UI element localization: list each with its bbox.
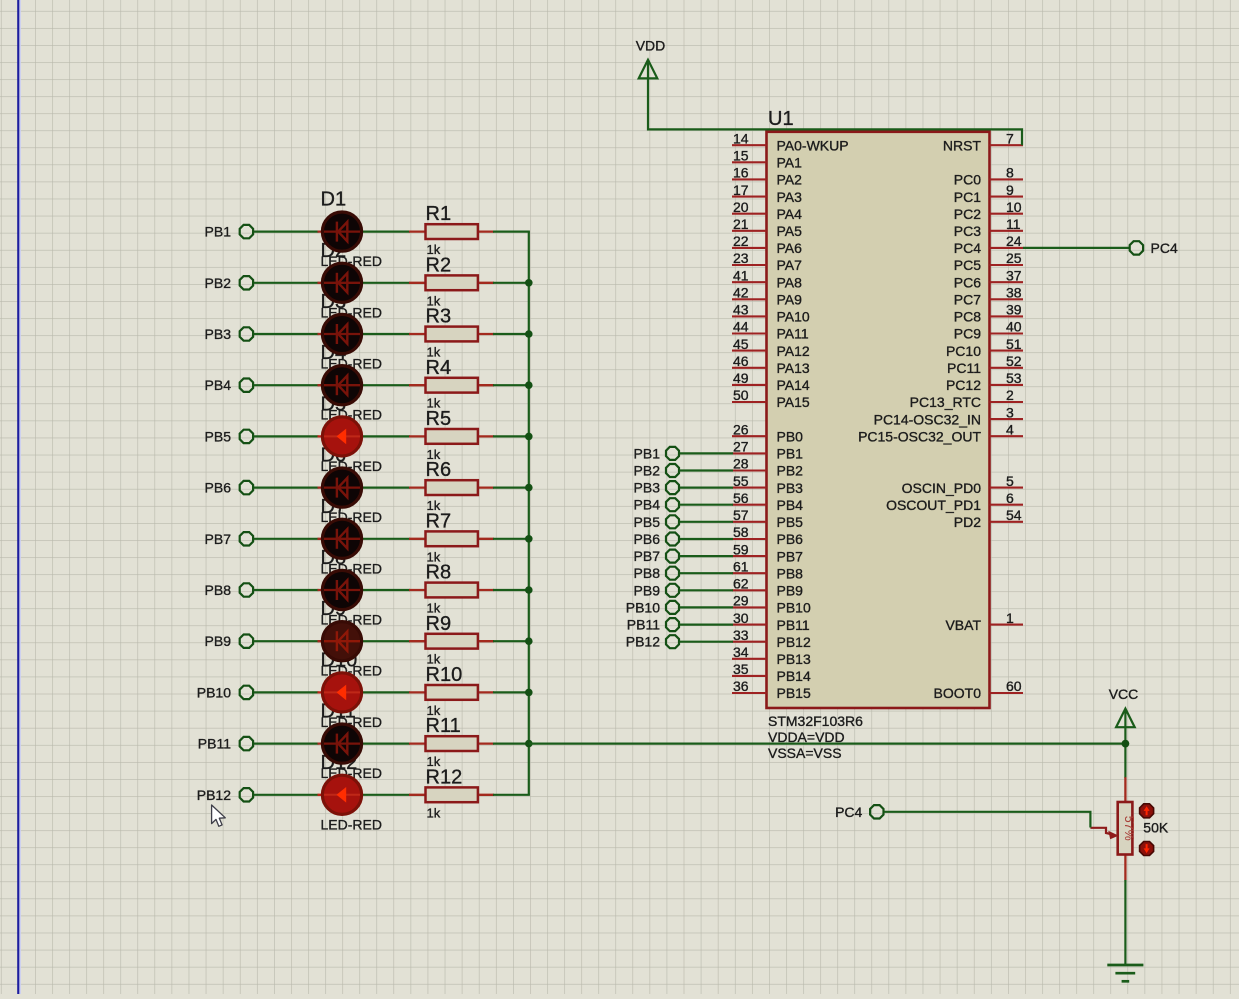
svg-text:R7: R7 [426, 510, 452, 532]
LED D10 [318, 673, 363, 712]
svg-text:38: 38 [1006, 285, 1022, 301]
wire R3 to bus [493, 333, 530, 335]
terminal PB7 (at U1) [634, 548, 679, 564]
pin 56 (PB4) [732, 490, 803, 513]
svg-text:42: 42 [733, 285, 749, 301]
svg-text:55: 55 [733, 473, 749, 489]
wire R12 to bus [493, 794, 530, 796]
svg-text:PB6: PB6 [634, 531, 661, 547]
svg-text:PB7: PB7 [634, 548, 661, 564]
wire PB4 terminal to U1 pin [680, 504, 734, 506]
pin 50 (PA15) [732, 387, 810, 410]
terminal PB11 (at U1) [627, 617, 679, 633]
svg-text:PC3: PC3 [954, 223, 981, 239]
svg-text:PB11: PB11 [627, 617, 660, 633]
svg-text:43: 43 [733, 302, 749, 318]
svg-text:27: 27 [733, 439, 749, 455]
pin 30 (PB11) [732, 610, 810, 633]
junction bus row 9 [525, 637, 533, 645]
svg-text:OSCOUT_PD1: OSCOUT_PD1 [886, 497, 981, 513]
wire PB1 terminal to U1 pin [680, 452, 734, 454]
svg-text:PC1: PC1 [954, 189, 981, 205]
resistor R6 [409, 459, 494, 513]
terminal PB1 (at U1) [634, 445, 679, 461]
svg-text:PA3: PA3 [777, 189, 803, 205]
pin 1 (VBAT) [945, 610, 1023, 633]
svg-text:PB8: PB8 [205, 582, 232, 598]
terminal PB12 (at U1) [626, 634, 679, 650]
pin 7 (NRST) [943, 130, 1023, 153]
svg-text:6: 6 [1006, 490, 1014, 506]
terminal PB4 (at U1) [634, 497, 679, 513]
svg-text:4: 4 [1006, 421, 1014, 437]
svg-text:5: 5 [1006, 473, 1014, 489]
wire D10 to R10 [363, 691, 411, 693]
pin 46 (PA13) [732, 353, 810, 376]
wire R4 to bus [493, 384, 530, 386]
pin 29 (PB10) [732, 593, 811, 616]
power VCC [1109, 686, 1139, 727]
wire PB4 terminal to D4 [254, 384, 319, 386]
wire D2 to R2 [363, 282, 411, 284]
pin 57 (PB5) [732, 507, 803, 530]
svg-text:PA15: PA15 [777, 394, 810, 410]
svg-text:PB1: PB1 [634, 445, 661, 461]
terminal PB6 [205, 480, 254, 496]
svg-text:PB12: PB12 [197, 787, 231, 803]
junction bus row 7 [525, 535, 533, 543]
wire PB7 terminal to U1 pin [680, 555, 734, 557]
wire PB7 terminal to D7 [254, 538, 319, 540]
LED D5 [318, 417, 363, 456]
svg-text:R8: R8 [426, 562, 452, 584]
junction bus row 3 [525, 330, 533, 338]
LED D1 [318, 212, 363, 251]
pin 23 (PA7) [732, 250, 802, 273]
junction bus row 6 [525, 484, 533, 492]
svg-text:VSSA=VSS: VSSA=VSS [768, 745, 842, 761]
terminal PB6 (at U1) [634, 531, 679, 547]
wire PC4 to RV1 wiper [884, 812, 1090, 828]
resistor R5 [409, 408, 494, 462]
svg-text:11: 11 [1006, 216, 1021, 232]
svg-text:29: 29 [733, 593, 749, 609]
resistor R9 [409, 613, 494, 667]
svg-text:PC4: PC4 [835, 804, 862, 820]
svg-text:2: 2 [1006, 387, 1014, 403]
svg-text:PB3: PB3 [777, 480, 804, 496]
svg-text:28: 28 [733, 456, 749, 472]
svg-text:R11: R11 [426, 715, 461, 737]
svg-text:PB5: PB5 [634, 514, 661, 530]
svg-text:R3: R3 [426, 306, 452, 328]
wire vertical bus (LED cathode net) [528, 232, 530, 795]
wire R1 to bus [493, 231, 530, 233]
svg-text:PA8: PA8 [777, 274, 803, 290]
svg-text:24: 24 [1006, 233, 1022, 249]
svg-text:PA10: PA10 [777, 309, 810, 325]
svg-text:PB7: PB7 [205, 531, 232, 547]
svg-text:PB8: PB8 [634, 565, 661, 581]
svg-text:52: 52 [1006, 353, 1022, 369]
svg-text:R9: R9 [426, 613, 452, 635]
terminal PB7 [205, 531, 254, 547]
svg-text:61: 61 [733, 558, 749, 574]
svg-text:51: 51 [1006, 336, 1022, 352]
svg-text:49: 49 [733, 370, 749, 386]
wiper arrow of RV1 [1090, 828, 1118, 840]
pin 16 (PA2) [732, 165, 802, 188]
svg-text:PC13_RTC: PC13_RTC [910, 394, 981, 410]
svg-text:54: 54 [1006, 507, 1022, 523]
svg-text:BOOT0: BOOT0 [934, 685, 982, 701]
svg-text:15: 15 [733, 148, 749, 164]
svg-text:17: 17 [733, 182, 749, 198]
LED D7 [318, 519, 363, 558]
pin 25 (PC5) [954, 250, 1023, 273]
terminal PB11 [198, 736, 253, 752]
svg-text:U1: U1 [768, 108, 794, 130]
ground [1107, 965, 1143, 981]
junction bus row 11 [525, 740, 533, 748]
wire PB8 terminal to D8 [254, 589, 319, 591]
terminal PB8 [205, 582, 254, 598]
svg-text:25: 25 [1006, 250, 1022, 266]
svg-text:R1: R1 [426, 203, 452, 225]
potentiometer RV1 50K [1118, 777, 1137, 880]
wire D6 to R6 [363, 487, 411, 489]
svg-text:PA5: PA5 [777, 223, 803, 239]
svg-text:PB12: PB12 [626, 634, 660, 650]
pin 51 (PC10) [946, 336, 1023, 359]
pin 55 (PB3) [732, 473, 803, 496]
LED D6 [318, 468, 363, 507]
pin 58 (PB6) [732, 524, 803, 547]
junction bus row 8 [525, 586, 533, 594]
svg-text:20: 20 [733, 199, 749, 215]
LED D11 [318, 724, 363, 763]
pin 24 (PC4) [954, 233, 1023, 256]
svg-text:3: 3 [1006, 404, 1014, 420]
terminal PB2 (at U1) [634, 463, 679, 479]
svg-text:39: 39 [1006, 302, 1022, 318]
mouse cursor [212, 805, 226, 826]
svg-text:PB13: PB13 [777, 651, 811, 667]
svg-text:D1: D1 [321, 189, 347, 211]
wire PB8 terminal to U1 pin [680, 572, 734, 574]
svg-text:PA0-WKUP: PA0-WKUP [777, 137, 849, 153]
svg-text:57%: 57% [1122, 816, 1136, 841]
svg-text:PC5: PC5 [954, 257, 981, 273]
svg-text:PB3: PB3 [634, 480, 661, 496]
wire D9 to R9 [363, 640, 411, 642]
wire PB3 terminal to D3 [254, 333, 319, 335]
svg-text:VDD: VDD [636, 38, 666, 54]
svg-text:30: 30 [733, 610, 749, 626]
pin 34 (PB13) [732, 644, 811, 667]
wire VCC to RV1 [1124, 727, 1126, 778]
svg-text:LED-RED: LED-RED [321, 816, 382, 832]
svg-text:50: 50 [733, 387, 749, 403]
svg-text:PB8: PB8 [777, 565, 804, 581]
svg-text:PC8: PC8 [954, 309, 981, 325]
svg-text:PC11: PC11 [947, 360, 981, 376]
resistor R11 [409, 715, 494, 769]
pin 15 (PA1) [732, 148, 802, 171]
svg-text:PC14-OSC32_IN: PC14-OSC32_IN [874, 411, 981, 427]
svg-text:PB0: PB0 [777, 428, 804, 444]
pin 17 (PA3) [732, 182, 802, 205]
wire PB1 terminal to D1 [254, 231, 319, 233]
terminal PB5 (at U1) [634, 514, 679, 530]
svg-text:PB4: PB4 [634, 497, 661, 513]
resistor R3 [409, 306, 494, 360]
junction bus row 2 [525, 279, 533, 287]
svg-text:OSCIN_PD0: OSCIN_PD0 [902, 480, 982, 496]
svg-text:35: 35 [733, 661, 749, 677]
terminal PB2 [205, 275, 254, 291]
svg-text:26: 26 [733, 421, 749, 437]
svg-text:R5: R5 [426, 408, 452, 430]
svg-text:PC2: PC2 [954, 206, 981, 222]
pin 60 (BOOT0) [934, 678, 1023, 701]
wire R2 to bus [493, 282, 530, 284]
LED D9 [318, 622, 363, 661]
svg-text:PB15: PB15 [777, 685, 811, 701]
svg-text:PC7: PC7 [954, 292, 981, 308]
pin 61 (PB8) [732, 558, 803, 581]
svg-text:PB1: PB1 [777, 446, 804, 462]
svg-text:16: 16 [733, 165, 749, 181]
wire PB10 terminal to D10 [254, 691, 319, 693]
svg-text:PB10: PB10 [197, 684, 231, 700]
terminal PC4 (bottom) [835, 804, 883, 820]
wire PB6 terminal to D6 [254, 487, 319, 489]
pin 49 (PA14) [732, 370, 810, 393]
pin 6 (OSCOUT_PD1) [886, 490, 1023, 513]
terminal PB8 (at U1) [634, 565, 679, 581]
svg-text:1k: 1k [427, 805, 441, 820]
svg-text:PA13: PA13 [777, 360, 810, 376]
junction bus row 4 [525, 381, 533, 389]
svg-text:PC12: PC12 [946, 377, 981, 393]
svg-text:PB5: PB5 [777, 514, 804, 530]
terminal PB3 (at U1) [634, 480, 679, 496]
wire R7 to bus [493, 538, 530, 540]
wire PB5 terminal to D5 [254, 435, 319, 437]
pin 39 (PC8) [954, 302, 1023, 325]
svg-text:PB12: PB12 [777, 634, 811, 650]
resistor R4 [409, 357, 494, 411]
svg-text:PB4: PB4 [777, 497, 804, 513]
pin 44 (PA11) [732, 319, 809, 342]
pin 3 (PC14-OSC32_IN) [874, 404, 1023, 427]
svg-text:PC15-OSC32_OUT: PC15-OSC32_OUT [858, 428, 981, 444]
svg-text:PA1: PA1 [777, 155, 803, 171]
power VDD [636, 38, 666, 79]
wire RV1 to ground [1124, 880, 1126, 965]
svg-text:PB2: PB2 [777, 463, 804, 479]
terminal PB12 [197, 787, 253, 803]
svg-text:PA6: PA6 [777, 240, 803, 256]
svg-text:34: 34 [733, 644, 749, 660]
pin 8 (PC0) [954, 165, 1023, 188]
pin 52 (PC11) [947, 353, 1023, 376]
svg-text:R2: R2 [426, 254, 452, 276]
svg-text:VBAT: VBAT [945, 617, 981, 633]
svg-text:NRST: NRST [943, 137, 982, 153]
svg-text:PA12: PA12 [777, 343, 810, 359]
resistor R1 [409, 203, 494, 257]
svg-text:R12: R12 [426, 766, 463, 788]
pin 35 (PB14) [732, 661, 811, 684]
pin 2 (PC13_RTC) [910, 387, 1023, 410]
resistor R2 [409, 254, 494, 308]
wire D5 to R5 [363, 435, 411, 437]
svg-text:R4: R4 [426, 357, 452, 379]
wire R10 to bus [493, 691, 530, 693]
pin 26 (PB0) [732, 421, 803, 444]
wire PB10 terminal to U1 pin [680, 606, 734, 608]
terminal PB1 [205, 224, 254, 240]
resistor R7 [409, 510, 494, 564]
svg-text:8: 8 [1006, 165, 1014, 181]
wire PB12 terminal to U1 pin [680, 641, 734, 643]
terminal PC4 (right) [1130, 240, 1178, 256]
svg-text:10: 10 [1006, 199, 1022, 215]
op-amp U1 body (IC STM32F103R6) [767, 132, 990, 708]
wire D11 to R11 [363, 742, 411, 744]
terminal PB9 [205, 633, 254, 649]
svg-text:PB2: PB2 [205, 275, 232, 291]
svg-text:53: 53 [1006, 370, 1022, 386]
svg-text:14: 14 [733, 130, 749, 146]
LED D2 [318, 263, 363, 302]
svg-text:45: 45 [733, 336, 749, 352]
wire R6 to bus [493, 487, 530, 489]
svg-text:1: 1 [1006, 610, 1014, 626]
terminal PB3 [205, 326, 254, 342]
svg-text:9: 9 [1006, 182, 1014, 198]
wire D8 to R8 [363, 589, 411, 591]
svg-text:PC6: PC6 [954, 274, 981, 290]
pin 54 (PD2) [954, 507, 1023, 530]
terminal PB9 (at U1) [634, 582, 679, 598]
svg-text:56: 56 [733, 490, 749, 506]
svg-text:PA11: PA11 [777, 326, 809, 342]
pin 22 (PA6) [732, 233, 802, 256]
pin 62 (PB9) [732, 576, 803, 599]
wire PB6 terminal to U1 pin [680, 538, 734, 540]
svg-text:22: 22 [733, 233, 749, 249]
pin 20 (PA4) [732, 199, 802, 222]
resistor R8 [409, 562, 494, 616]
wire D3 to R3 [363, 333, 411, 335]
pin 41 (PA8) [732, 267, 802, 290]
wire D12 to R12 [363, 794, 411, 796]
junction bus row 10 [525, 689, 533, 697]
svg-text:PB1: PB1 [205, 224, 232, 240]
LED D4 [318, 366, 363, 405]
pin 42 (PA9) [732, 285, 802, 308]
pin 5 (OSCIN_PD0) [902, 473, 1023, 496]
junction bus row 5 [525, 433, 533, 441]
svg-text:PD2: PD2 [954, 514, 981, 530]
wire PB11 terminal to U1 pin [680, 623, 734, 625]
wire PB5 terminal to U1 pin [680, 521, 734, 523]
svg-text:PB10: PB10 [626, 599, 660, 615]
junction VCC node [1122, 740, 1130, 748]
pin 21 (PA5) [732, 216, 802, 239]
svg-text:PB9: PB9 [777, 583, 804, 599]
svg-text:40: 40 [1006, 319, 1022, 335]
svg-text:60: 60 [1006, 678, 1022, 694]
actuator down button [1140, 842, 1154, 856]
svg-text:50K: 50K [1143, 820, 1169, 836]
svg-text:PB5: PB5 [205, 428, 232, 444]
wire bus to VCC node [529, 742, 1126, 744]
pin 43 (PA10) [732, 302, 810, 325]
svg-text:PB14: PB14 [777, 668, 811, 684]
pin 53 (PC12) [946, 370, 1023, 393]
svg-text:PC4: PC4 [1151, 240, 1178, 256]
svg-text:PB11: PB11 [198, 736, 231, 752]
svg-text:46: 46 [733, 353, 749, 369]
LED D8 [318, 570, 363, 609]
resistor R10 [409, 664, 494, 718]
wire PB9 terminal to U1 pin [680, 589, 734, 591]
wire PB12 terminal to D12 [254, 794, 319, 796]
LED D3 [318, 314, 363, 353]
resistor R12 [409, 766, 494, 820]
svg-text:VCC: VCC [1109, 686, 1139, 702]
terminal PB5 [205, 428, 254, 444]
svg-text:PB11: PB11 [777, 617, 810, 633]
pin 37 (PC6) [954, 267, 1023, 290]
svg-text:PB9: PB9 [205, 633, 232, 649]
wire VDD to U1 NRST [648, 78, 1022, 145]
svg-text:PB4: PB4 [205, 377, 232, 393]
svg-text:PB9: PB9 [634, 582, 661, 598]
svg-text:PA7: PA7 [777, 257, 803, 273]
svg-text:PA14: PA14 [777, 377, 810, 393]
wire D4 to R4 [363, 384, 411, 386]
wire PB9 terminal to D9 [254, 640, 319, 642]
svg-text:VDDA=VDD: VDDA=VDD [768, 729, 845, 745]
svg-text:57: 57 [733, 507, 749, 523]
pin 40 (PC9) [954, 319, 1023, 342]
svg-text:PA4: PA4 [777, 206, 803, 222]
wire PB2 terminal to D2 [254, 282, 319, 284]
svg-text:PB6: PB6 [205, 480, 232, 496]
svg-text:PA9: PA9 [777, 292, 803, 308]
pin 45 (PA12) [732, 336, 810, 359]
pin 27 (PB1) [732, 439, 803, 462]
pin 10 (PC2) [954, 199, 1023, 222]
svg-text:PB7: PB7 [777, 548, 804, 564]
wire R9 to bus [493, 640, 530, 642]
wire D1 to R1 [363, 231, 411, 233]
svg-text:R6: R6 [426, 459, 452, 481]
terminal PB10 (at U1) [626, 599, 679, 615]
actuator up button [1140, 804, 1154, 818]
svg-text:PC4: PC4 [954, 240, 981, 256]
pin 4 (PC15-OSC32_OUT) [858, 421, 1023, 444]
svg-text:33: 33 [733, 627, 749, 643]
pin 28 (PB2) [732, 456, 803, 479]
wire R11 to bus [493, 742, 530, 744]
pin 59 (PB7) [732, 541, 803, 564]
